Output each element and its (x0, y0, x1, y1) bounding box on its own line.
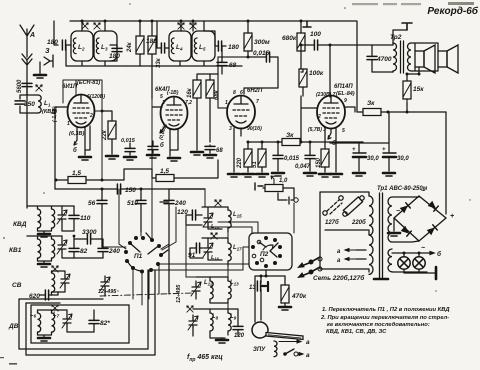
svg-text:0,047: 0,047 (295, 164, 311, 170)
svg-text:240: 240 (108, 248, 120, 255)
svg-text:КВ1: КВ1 (9, 247, 22, 254)
capacitor 0,015 (coupling) (273, 155, 283, 158)
chassis (heater) (435, 267, 438, 279)
wire П1 drops to bus (133, 225, 196, 305)
wires bridge to secondary (392, 196, 419, 242)
svg-text:22к: 22к (102, 129, 108, 141)
ground (22к) (106, 156, 118, 159)
svg-text:0,015: 0,015 (253, 50, 270, 57)
svg-text:7: 7 (256, 99, 259, 105)
osc coil row A (228, 210, 231, 228)
svg-text:82*: 82* (100, 320, 110, 327)
trimmer X mark (36, 85, 42, 91)
svg-text:180: 180 (109, 53, 120, 60)
pickup coil (274, 341, 277, 357)
svg-text:Зк: Зк (286, 132, 294, 139)
svg-text:L7: L7 (53, 312, 60, 319)
band coil L6 (38, 313, 41, 332)
svg-text:А: А (29, 32, 35, 39)
capacitor 68 (screen bypass) (205, 146, 215, 149)
resistor 680к (297, 33, 305, 51)
svg-text:150: 150 (316, 157, 322, 168)
terminal а (upper) (279, 340, 301, 343)
svg-text:15к: 15к (413, 86, 424, 93)
L1 input tank: cap 350 + coil L1 (20, 88, 38, 118)
wire antenna tank down to band coils (26, 118, 28, 208)
ground (68 cap, 16к) (204, 155, 216, 158)
trimmer (row B) (203, 243, 213, 257)
svg-text:Зк: Зк (367, 100, 375, 107)
resistor 15к (403, 81, 411, 99)
wire top supply rail (70, 21, 363, 112)
resistor 51 (258, 149, 266, 167)
capacitor 620 (45, 290, 48, 300)
resistor 470к (281, 285, 289, 303)
svg-text:127б: 127б (325, 219, 339, 226)
capacitor 0,015 (padder) (125, 148, 135, 151)
tube Л3 pin wires (218, 57, 363, 172)
antenna A (20, 25, 34, 113)
IF can L2 (71, 31, 93, 61)
wire rail y189 (55, 188, 205, 190)
svg-text:13: 13 (249, 285, 256, 291)
lamp 1 (398, 257, 410, 269)
svg-text:(-1В): (-1В) (167, 90, 179, 96)
resistor 1,5 (AGC filter left) (68, 177, 86, 184)
svg-text:(5,7В) 3: (5,7В) 3 (308, 127, 326, 133)
diode D2 (428, 201, 439, 212)
svg-text:+: + (352, 147, 356, 153)
band coil L14 (КВД) (38, 209, 41, 228)
svg-text:16к: 16к (187, 87, 193, 98)
jack З (ground/earth jack) (40, 55, 53, 74)
primary taps а arrows (345, 249, 356, 252)
X mark (row B) (211, 233, 217, 239)
svg-text:6П14П: 6П14П (334, 84, 353, 90)
svg-text:350: 350 (24, 101, 35, 108)
ground (tube2 cathode) (168, 158, 180, 161)
capacitor 120 (row D) (233, 326, 243, 329)
ground (КВД coils) (38, 234, 50, 237)
svg-text:2: 2 (317, 114, 321, 120)
rotary switch П2 (249, 233, 292, 270)
svg-text:220: 220 (237, 157, 243, 169)
loudspeaker 1 (415, 45, 435, 73)
svg-text:СВ: СВ (12, 282, 22, 289)
rectifier bridge (394, 196, 446, 241)
node dots top rail (81, 20, 303, 23)
svg-text:510: 510 (127, 200, 138, 207)
resistor 68к (206, 80, 214, 98)
svg-text:L9: L9 (230, 314, 237, 321)
svg-text:180: 180 (228, 44, 239, 51)
trimmer (КВ1) (57, 240, 67, 254)
svg-text:1: 1 (225, 100, 228, 106)
capacitor 180 (right of L3) (112, 48, 122, 51)
trimmer (ДВ) (62, 314, 72, 328)
svg-text:L12: L12 (204, 280, 213, 287)
pickup arm plate (266, 333, 303, 340)
svg-text:30,0: 30,0 (397, 156, 409, 162)
electrolytic 30,0 (first) (353, 153, 366, 157)
resistor 3к (feedback) (363, 109, 381, 116)
mains plug arrows (299, 257, 320, 277)
coil L1 (38, 95, 41, 113)
svg-text:(230В) 7: (230В) 7 (316, 92, 336, 98)
svg-text:5600: 5600 (17, 79, 23, 93)
band coil L15a (КВД) (52, 209, 55, 228)
wire osc riser (202, 189, 205, 207)
X mark (row C/D) (187, 306, 193, 312)
svg-text:L8: L8 (212, 314, 219, 321)
svg-text:~: ~ (421, 188, 425, 195)
svg-text:12÷495: 12÷495 (176, 284, 182, 303)
X mark (СВ) (52, 266, 58, 272)
Тр1 HV secondary (388, 197, 392, 242)
svg-text:1,5: 1,5 (72, 170, 81, 177)
osc coil row B (228, 243, 231, 261)
svg-text:З: З (45, 48, 50, 55)
heater bus + lamps (392, 252, 434, 273)
svg-text:150: 150 (125, 187, 136, 194)
wire 180 cap to L2 can (54, 21, 71, 45)
svg-text:Рекорд-6б: Рекорд-6б (427, 5, 478, 17)
tube Л1 6И1П converter (68, 95, 95, 128)
switch + terminal а (lower) (283, 352, 287, 356)
capacitor 91 (row B) (196, 243, 199, 253)
tube Л2 6К4П IF amp (161, 97, 188, 130)
wire grid box tube1 (63, 80, 102, 111)
svg-text:8: 8 (233, 90, 236, 96)
trimmer (row C) (191, 282, 201, 296)
resistor 220 (cathode) (244, 149, 252, 167)
wire П2 to pickup network (255, 270, 285, 322)
svg-text:68: 68 (216, 148, 223, 154)
svg-text:68к: 68к (214, 89, 220, 100)
coil L9 (228, 313, 231, 331)
diode D1 (400, 203, 411, 214)
capacitor 82 (69, 248, 79, 251)
resistor 150 (tube4 cathode) (321, 149, 329, 167)
wire feeds into П1 (119, 189, 176, 250)
svg-text:а: а (306, 352, 310, 359)
svg-text:+: + (382, 147, 386, 153)
capacitor 120 (osc) (192, 210, 195, 220)
gang dash-dot link (100, 293, 192, 296)
tone cap + switch contact (282, 197, 294, 204)
svg-text:ЗПУ: ЗПУ (253, 347, 266, 353)
resistor 24к (136, 36, 144, 54)
X mark (osc row A) (215, 200, 221, 206)
tube Л4 6П14П output (317, 96, 345, 129)
ground (0,005) (147, 155, 159, 158)
trimmer (СВ) (60, 274, 70, 288)
ground (tube1 cathode) (79, 157, 91, 160)
svg-text:L15: L15 (233, 212, 242, 219)
band coil L11 (СВ) (52, 273, 55, 292)
coil L12 (210, 281, 213, 299)
svg-text:L13: L13 (230, 280, 239, 287)
capacitor 82* (89, 320, 99, 323)
coil L8 (210, 313, 213, 331)
svg-text:1,0: 1,0 (279, 178, 288, 184)
svg-text:5: 5 (342, 128, 345, 134)
svg-text:б: б (73, 147, 77, 154)
svg-text:100к: 100к (309, 70, 324, 77)
capacitor 150 (117, 184, 120, 194)
resistor 1,5 (AGC filter right) (156, 175, 174, 182)
trimmer (КВД) (57, 210, 67, 224)
svg-text:а: а (306, 339, 310, 346)
svg-text:220б: 220б (351, 219, 366, 226)
svg-text:7,2: 7,2 (185, 100, 192, 106)
resistor 3к (tube3 plate) (282, 139, 300, 146)
resistor 22к (osc grid) (102, 111, 112, 154)
svg-text:680к: 680к (282, 35, 297, 42)
ground (row D) (216, 340, 228, 343)
selector plug 127в (dashed) (323, 211, 327, 215)
chassis bar under core (374, 278, 388, 281)
capacitor 240 (164, 200, 174, 203)
capacitor 4700 (367, 56, 377, 59)
wire verticals into П1 (102, 232, 169, 249)
svg-text:300м: 300м (254, 39, 270, 46)
coil L13 (228, 281, 231, 299)
rotary switch П1 (124, 236, 163, 274)
capacitor 240 (КВ1) (98, 248, 108, 251)
svg-text:+: + (450, 213, 454, 220)
svg-text:82: 82 (80, 248, 88, 255)
band coil L10 (КВ1) (38, 239, 41, 258)
svg-text:240: 240 (174, 200, 186, 207)
svg-text:П1: П1 (134, 253, 143, 260)
resistor 16к (193, 80, 201, 98)
svg-text:КВД, КВ1, СВ, ДВ, ЗС: КВД, КВ1, СВ, ДВ, ЗС (326, 329, 387, 335)
ground (ДВ coils) (38, 338, 50, 341)
Тр1 core (380, 193, 383, 278)
svg-text:−: − (396, 208, 400, 215)
svg-text:3300: 3300 (82, 229, 97, 236)
ground (tube3) (228, 174, 240, 177)
diode D4 (427, 225, 438, 236)
IF can L3 (94, 31, 117, 61)
lamp 2 (413, 257, 425, 269)
capacitor 56 (AGC) (97, 200, 107, 203)
wire L4/L5 tops to rail (181, 21, 193, 31)
trimmer (osc row A) (203, 213, 213, 227)
ground (КВ1 coils) (38, 264, 50, 267)
svg-text:9: 9 (344, 98, 347, 104)
Тр1 primary winding (369, 196, 373, 274)
svg-text:0,015: 0,015 (121, 138, 136, 144)
svg-text:56: 56 (88, 200, 96, 207)
svg-text:6(120В): 6(120В) (87, 94, 105, 100)
wire L2/L3 tops to rail (82, 21, 105, 31)
wire П1 to П2 runs (158, 263, 249, 265)
tube Л1 pin wires + AGC arrow б (55, 107, 90, 189)
svg-text:Сеть 220б,127б: Сеть 220б,127б (313, 274, 365, 282)
capacitor 180 (ant coupling) (62, 40, 65, 50)
wire IF strip row links (227, 232, 229, 309)
svg-text:0,015: 0,015 (284, 156, 300, 162)
capacitor 0,015 (to tube3 grid) (266, 52, 269, 62)
svg-text:2. При вращении переключателя: 2. При вращении переключателя по стрел- (320, 315, 449, 321)
volume potentiometer 1,0 (255, 183, 263, 190)
svg-text:КВД: КВД (13, 221, 27, 228)
capacitor 110 (69, 215, 79, 218)
trimmer (row D) (188, 316, 198, 330)
capacitor 180 (right of L5) (218, 41, 221, 51)
svg-text:3: 3 (229, 126, 232, 132)
trimmer X marks above L2 L3 (82, 23, 88, 29)
tube Л4 pin wires + б arrow (301, 96, 355, 148)
capacitor 3300 (87, 234, 90, 244)
wire AGC rail y180 (55, 169, 152, 180)
svg-text:120: 120 (234, 333, 245, 339)
svg-text:б: б (160, 142, 164, 149)
svg-text:1. Переключатель П1 , П2 в пол: 1. Переключатель П1 , П2 в положении КВД (322, 307, 450, 313)
resistor 300м (244, 33, 252, 51)
svg-text:П2: П2 (260, 251, 269, 258)
svg-text:1: 1 (162, 100, 165, 106)
svg-text:2: 2 (89, 113, 93, 119)
svg-text:~: ~ (421, 245, 425, 252)
svg-text:110: 110 (80, 215, 91, 222)
svg-text:24к: 24к (127, 41, 133, 53)
long wire x152 (151, 99, 153, 235)
tube Л3 6Н2П AF preamp (227, 96, 255, 129)
svg-text:6Н2П: 6Н2П (247, 88, 263, 94)
ground (bridge minus) (388, 233, 400, 236)
capacitor 180 (left of L4) (161, 43, 164, 53)
wire П2 top risers (203, 222, 258, 233)
chassis cap above Тр2 (402, 23, 412, 30)
svg-text:ке включаются последовательно:: ке включаются последовательно: (327, 322, 430, 328)
band coil L10b (КВ1) (52, 239, 55, 258)
ground (470к) (279, 307, 291, 310)
diode D3 (401, 226, 412, 237)
band coil L7 (52, 313, 55, 332)
bottom bus loops (19, 270, 155, 355)
IF can L4 (169, 31, 191, 61)
electrolytic 30,0 (second) (383, 153, 396, 157)
svg-text:L17: L17 (233, 245, 242, 252)
svg-text:12÷495: 12÷495 (98, 289, 117, 295)
svg-text:1: 1 (67, 121, 70, 127)
capacitor 510 (136, 200, 146, 203)
ground (0,015) (124, 157, 136, 160)
capacitor 0,005 (screen) (148, 146, 158, 149)
pickup jack ЗПУ (252, 322, 268, 338)
svg-text:L16: L16 (211, 255, 220, 261)
ground (jack) (34, 75, 46, 78)
IF can L5 (192, 31, 215, 61)
fuse plug 220в (343, 197, 362, 215)
svg-text:90(1б): 90(1б) (247, 125, 262, 132)
wire grid line tube4 (329, 45, 331, 97)
variable capacitor 12÷495 (input gang) (100, 277, 110, 291)
svg-text:51: 51 (252, 161, 258, 168)
anode top-cap of tube4 (303, 21, 311, 27)
resistor 100к (299, 69, 307, 87)
svg-text:30,0: 30,0 (367, 156, 379, 162)
svg-text:(EL-84): (EL-84) (336, 91, 355, 97)
svg-text:ДВ: ДВ (8, 323, 19, 330)
voltage selector: top wire (320, 192, 369, 272)
X mark (ДВ) (52, 305, 58, 311)
capacitor 0,047 (305, 155, 315, 158)
Тр1 heater secondary (388, 249, 392, 272)
tube Л2 pin wires (152, 107, 178, 156)
svg-text:6: 6 (240, 90, 243, 96)
trimmer X marks above L4 L5 (178, 23, 184, 29)
loudspeaker 2 (438, 45, 458, 73)
wire right vertical to rectifier + (445, 112, 447, 214)
svg-text:180: 180 (146, 38, 157, 45)
svg-text:(6,3В): (6,3В) (69, 131, 84, 137)
svg-text:(ЕСН-81): (ЕСН-81) (77, 80, 100, 86)
wire L2L3 bottom (66, 45, 126, 66)
capacitor 13 + chassis tab (257, 281, 260, 291)
capacitor 68 (217, 62, 227, 65)
svg-text:100: 100 (310, 31, 321, 38)
capacitor 5600 (22, 83, 32, 86)
svg-text:470к: 470к (291, 293, 307, 300)
resistor 33к (148, 36, 156, 54)
svg-text:4700: 4700 (376, 56, 392, 63)
capacitor 100 (314, 40, 317, 50)
svg-text:Тр2: Тр2 (390, 34, 402, 41)
smudge above title (352, 2, 474, 5)
svg-text:1,5: 1,5 (160, 168, 169, 175)
